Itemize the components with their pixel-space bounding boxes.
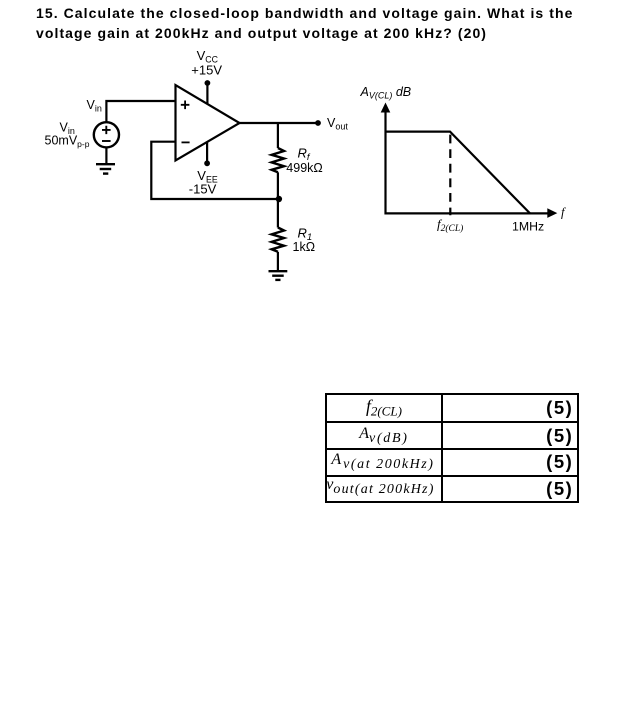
op-amp U1 (176, 85, 240, 161)
label R1 1kOhm (293, 225, 316, 254)
resistor R1 (272, 228, 284, 252)
label Vin 50mVp-p (45, 121, 90, 149)
wire feedback from junction to inverting input (151, 142, 279, 199)
node Vout terminal dot (315, 120, 321, 126)
VEE terminal wire and dot (204, 142, 210, 167)
svg-text:-15V: -15V (189, 182, 217, 197)
ground (below R1) (269, 271, 288, 280)
graph y-axis with arrow (381, 103, 391, 215)
resistor Rf (272, 148, 284, 172)
svg-text:1kΩ: 1kΩ (293, 240, 316, 254)
table row Av(dB) (326, 422, 578, 449)
svg-text:50mVp-p: 50mVp-p (45, 134, 90, 149)
wire Rf to junction (277, 172, 279, 199)
label VEE -15V (189, 168, 218, 197)
ground (below source) (96, 164, 115, 173)
svg-text:Vout: Vout (327, 116, 348, 132)
node junction dot (276, 196, 282, 202)
svg-text:f2(CL): f2(CL) (437, 217, 463, 235)
wire R1 to ground (277, 252, 279, 271)
output wire from op-amp apex to Vout (240, 122, 319, 124)
wire source to ground (105, 147, 107, 164)
wire output branch down to Rf (277, 123, 279, 148)
svg-text:f: f (561, 205, 566, 219)
wire Vin node to non-inverting input (106, 101, 175, 122)
frequency response curve (387, 132, 531, 214)
VCC terminal wire and dot (205, 80, 211, 104)
svg-text:AV(CL) dB: AV(CL) dB (360, 85, 412, 101)
wire junction to R1 (277, 199, 279, 228)
svg-text:499kΩ: 499kΩ (286, 161, 322, 175)
label Rf 499kOhm (286, 146, 322, 176)
table row vout(at 200kHz) (326, 476, 578, 502)
source V1 (circle with plus minus) (94, 122, 119, 147)
svg-text:1MHz: 1MHz (512, 220, 544, 234)
dashed line at f2(CL) (449, 135, 451, 216)
table row f2(CL) (326, 394, 578, 502)
graph x-axis with arrow (385, 208, 558, 218)
question title text (36, 3, 626, 44)
label VCC +15V (191, 48, 222, 77)
svg-text:+15V: +15V (191, 63, 222, 78)
table row Av(at 200kHz) (326, 449, 578, 476)
answer table (325, 393, 579, 503)
svg-text:Vin: Vin (87, 98, 102, 114)
